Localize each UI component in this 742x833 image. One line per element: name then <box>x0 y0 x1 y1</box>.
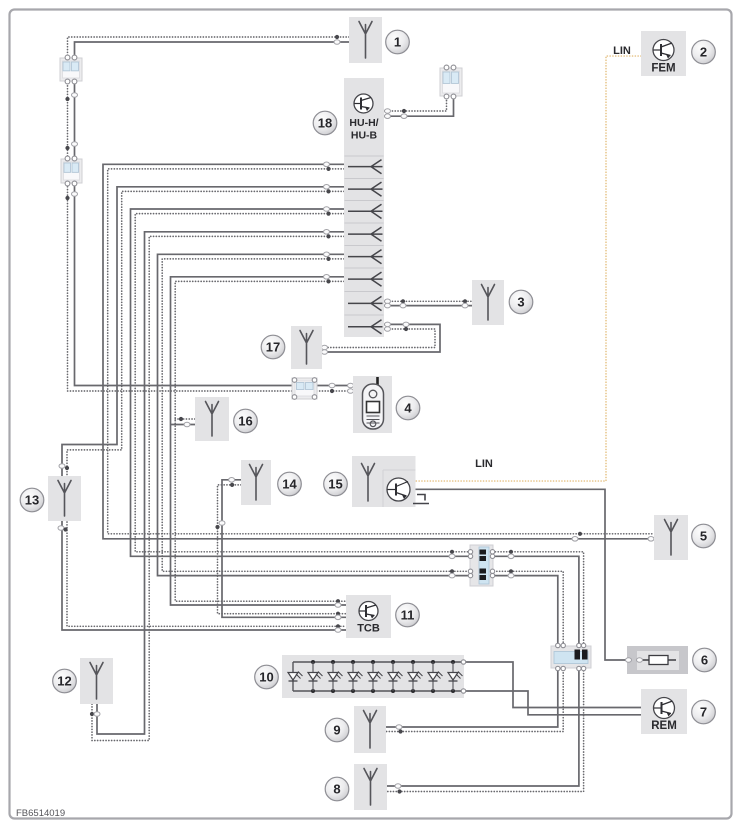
wire HU row4 to antenna12 dotted <box>92 236 344 740</box>
wire HU row6 to TCB dotted <box>175 281 346 601</box>
wire HU row1 to antenna5 dotted <box>108 169 654 534</box>
label 16 <box>234 409 258 433</box>
wire antenna14 to TCB dotted <box>218 485 347 614</box>
FEM control unit U2 <box>641 31 686 76</box>
antenna A13 <box>48 476 81 521</box>
label 2 <box>692 40 716 64</box>
connectors at HU row2 input <box>324 185 330 190</box>
svg-text:7: 7 <box>700 704 707 719</box>
connectors at HU row3 input <box>324 207 330 212</box>
svg-text:FEM: FEM <box>651 63 675 75</box>
label 18 <box>313 111 337 135</box>
wire HU row8 to antenna17 dotted <box>322 329 435 348</box>
svg-text:HU-B: HU-B <box>351 130 378 142</box>
HU antenna input forks <box>348 160 383 174</box>
connectors at antenna13 bottom <box>58 526 64 531</box>
antenna A12 <box>80 658 113 704</box>
wire HU row4 to antenna12 solid <box>97 232 344 734</box>
svg-text:17: 17 <box>266 339 280 354</box>
svg-text:11: 11 <box>401 607 415 622</box>
wire HU row2 via antenna13 to TCB solid <box>62 187 346 630</box>
label 15 <box>324 472 348 496</box>
wire module15 to fuse solid <box>416 489 628 660</box>
bottom right coax connector block <box>551 646 591 668</box>
connectors on coax pair wires near block <box>450 550 454 554</box>
label 5 <box>692 524 716 548</box>
svg-text:4: 4 <box>404 400 412 415</box>
antenna A3 <box>472 280 504 325</box>
connectors at HU row4 input <box>324 230 330 235</box>
label 6 <box>693 648 717 672</box>
wire LED strip to REM upper <box>464 662 641 708</box>
svg-text:12: 12 <box>57 673 71 688</box>
terminator symbol near U15 <box>413 495 429 504</box>
antenna A14 <box>241 460 271 505</box>
wire HU row8 to antenna17 solid <box>322 324 440 352</box>
TCB control unit U11 <box>346 595 391 638</box>
connectors on antenna3 wire <box>401 299 405 303</box>
wire antenna14 to TCB solid <box>222 480 346 618</box>
connectors on antenna16 stub <box>179 417 183 421</box>
connectors on antenna5 wire <box>578 532 582 536</box>
svg-text:REM: REM <box>651 720 677 732</box>
label 12 <box>53 669 77 693</box>
label 14 <box>278 472 302 496</box>
connectors on phone wire <box>329 383 335 388</box>
connectors at antenna8 output <box>395 784 401 789</box>
LIN bus wire (orange dotted) <box>416 56 642 481</box>
wire stub to antenna16 solid <box>171 424 196 426</box>
connectors on antenna17 loop wire <box>403 322 409 327</box>
svg-text:9: 9 <box>333 722 340 737</box>
svg-text:LIN: LIN <box>613 45 631 57</box>
wire HU to roof module solid <box>384 97 454 116</box>
label 7 <box>692 700 716 724</box>
connector pair on antenna1 wire <box>335 35 339 39</box>
phone inline connector <box>292 378 317 399</box>
label 9 <box>325 718 349 742</box>
svg-text:16: 16 <box>238 413 252 428</box>
wire HU row5 to antenna9 dotted <box>162 259 563 732</box>
connector module M1 (top left) <box>60 58 82 81</box>
pin rings at HU right edge <box>385 299 391 304</box>
antenna amplifier module U15 <box>352 456 416 507</box>
wire antenna1 dotted <box>68 37 353 391</box>
wire stub to antenna16 dotted <box>175 418 195 420</box>
wire HU row7 to antenna3 solid <box>384 305 472 307</box>
label 13 <box>20 488 44 512</box>
mobile phone U4 <box>353 376 392 433</box>
svg-text:3: 3 <box>517 294 524 309</box>
svg-text:6: 6 <box>701 652 708 667</box>
wire HU row3 to antenna8 dotted <box>135 214 583 792</box>
connectors at HU row1 input <box>324 162 330 167</box>
svg-text:FB6514019: FB6514019 <box>16 808 65 819</box>
wire HU row2 via antenna13 to TCB dotted <box>67 191 346 626</box>
svg-text:1: 1 <box>394 34 401 49</box>
svg-text:LIN: LIN <box>475 458 493 470</box>
antenna A17 <box>291 326 322 369</box>
middle coax connector block <box>470 545 493 586</box>
svg-text:18: 18 <box>318 115 332 130</box>
label 4 <box>396 396 420 420</box>
antenna A16 <box>195 397 229 441</box>
label 3 <box>509 290 533 314</box>
label 17 <box>261 335 285 359</box>
svg-text:8: 8 <box>333 781 340 796</box>
svg-text:13: 13 <box>25 492 39 507</box>
svg-text:15: 15 <box>328 476 342 491</box>
connectors at antenna13 top <box>59 464 65 469</box>
connector module M2 (left) <box>61 159 82 183</box>
connectors at HU row6 input <box>324 275 330 280</box>
connectors on antenna1 riser <box>65 97 69 101</box>
pin rings at phone edge <box>348 383 354 388</box>
antenna A8 <box>354 764 387 810</box>
wire HU row1 to antenna5 solid <box>103 164 654 539</box>
pin rings at antenna17 edge <box>322 345 328 350</box>
roof connector module (top, near HU) <box>440 68 462 96</box>
svg-text:HU-H/: HU-H/ <box>349 117 378 129</box>
svg-text:5: 5 <box>700 528 707 543</box>
wire LED strip to REM lower <box>464 691 641 715</box>
connectors on antenna14 riser <box>215 525 219 529</box>
wire HU row5 to antenna9 solid <box>158 254 558 727</box>
svg-text:TCB: TCB <box>357 623 380 635</box>
antenna A1 (roof antenna) <box>349 17 382 63</box>
connectors at antenna9 output <box>396 725 402 730</box>
svg-text:10: 10 <box>259 669 273 684</box>
connectors at antenna14 output <box>229 478 235 483</box>
label 10 <box>255 665 279 689</box>
antenna A5 <box>654 515 688 560</box>
wire antenna1 solid <box>75 42 353 386</box>
wire HU row3 to antenna8 solid <box>131 209 579 786</box>
wire HU row7 to antenna3 dotted <box>384 300 472 302</box>
svg-text:14: 14 <box>282 476 297 491</box>
connector on fuse wire <box>631 658 637 663</box>
fuse U6 <box>627 646 688 674</box>
LED antenna array U10 <box>282 655 464 698</box>
wire HU to roof module dotted <box>384 97 447 111</box>
connectors at antenna12 stub <box>90 712 94 716</box>
connectors at HU row5 input <box>324 252 330 257</box>
label 1 <box>386 30 410 54</box>
label 11 <box>396 603 420 627</box>
connectors at TCB inputs <box>336 599 340 603</box>
wire HU row6 to TCB solid <box>171 277 347 605</box>
antenna A9 <box>354 706 386 753</box>
REM control unit U7 <box>641 689 687 734</box>
label 8 <box>325 777 349 801</box>
svg-text:2: 2 <box>700 44 707 59</box>
connectors on roof module wire <box>402 109 406 113</box>
head unit HU-H/HU-B U18 <box>344 78 384 337</box>
